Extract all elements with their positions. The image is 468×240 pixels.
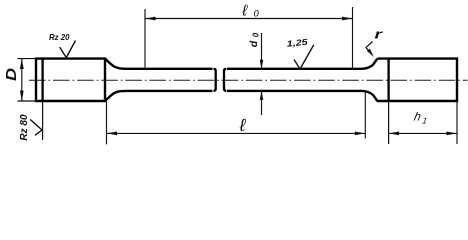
break cap right (224, 69, 226, 91)
roughness Rz20 check mark (60, 41, 76, 58)
L0 arrow right (342, 17, 353, 21)
svg-text:D: D (4, 67, 20, 81)
centerline (dash-dot axis) (29, 79, 468, 81)
svg-text:Rz 80: Rz 80 (19, 114, 30, 141)
right fillet bottom (362, 91, 378, 101)
l arrow left (107, 132, 118, 136)
left head transverse line (end-face mark) (41, 59, 43, 101)
svg-text:Rz 20: Rz 20 (49, 32, 70, 42)
h1 arrow left (389, 132, 400, 136)
svg-text:0: 0 (254, 8, 260, 19)
dimension d0 upper line (261, 33, 263, 69)
left head outline (36, 59, 105, 101)
dimension h1 line (389, 132, 457, 134)
roughness 1,25 check mark (294, 45, 314, 69)
dimension D arrow up (20, 59, 24, 69)
radius r leader line (366, 42, 373, 54)
right head outline (377, 59, 457, 101)
dimension l line (107, 132, 366, 134)
dimension D line (21, 59, 23, 101)
gauge section left piece (top and bottom edges) (127, 68, 213, 70)
svg-text:0: 0 (252, 32, 261, 37)
dimension l extension line right (364, 93, 366, 139)
break cap left (214, 69, 216, 91)
right head transverse line / h1 left extension (387, 59, 389, 101)
svg-text:d: d (248, 40, 260, 47)
left fillet top (105, 59, 127, 69)
dimension h1 extension right (456, 102, 458, 145)
L0 arrow left (145, 17, 156, 21)
roughness Rz80 check mark (rotated) (30, 120, 42, 136)
right fillet top (362, 59, 378, 69)
h1 arrow right (447, 132, 458, 136)
dimension l extension line left (106, 102, 108, 145)
dimension L0 extension line left (144, 9, 146, 69)
dimension L0 line (145, 18, 353, 20)
radius r arrowhead (367, 49, 374, 57)
dimension D extension lines (18, 58, 37, 60)
dimension d0 lower line (261, 91, 263, 115)
svg-text:ℓ: ℓ (241, 2, 248, 19)
dimension D arrow down (20, 91, 24, 101)
l arrow right (355, 132, 366, 136)
dimension L0 extension line right (352, 7, 354, 69)
d0 arrow down (260, 60, 264, 69)
d0 arrow up (260, 91, 264, 100)
gauge section right piece (top and bottom edges) (227, 68, 362, 70)
left fillet bottom (105, 91, 127, 101)
